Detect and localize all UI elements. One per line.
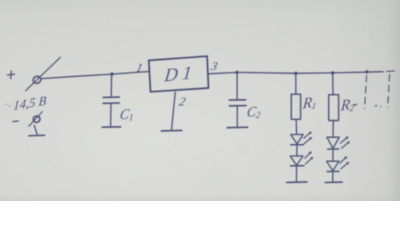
wire R1 to LED1 xyxy=(295,119,297,134)
LED VD3 xyxy=(327,136,350,149)
wire D1 pin2 down xyxy=(172,92,176,129)
ground under negative terminal xyxy=(29,134,45,137)
capacitor C1 xyxy=(103,74,119,126)
terminal X1 negative xyxy=(29,112,43,135)
ellipsis continuation dots xyxy=(354,105,382,107)
ground branch 2 xyxy=(325,181,342,183)
node D junction xyxy=(331,71,334,74)
wire dashed branch stub 2 xyxy=(388,75,390,108)
wire node D to edge xyxy=(333,72,383,73)
wire D1 pin3 to node B xyxy=(209,72,238,73)
wire dashed continuation right xyxy=(387,70,395,73)
minus sign xyxy=(13,120,18,123)
IC D1 xyxy=(149,56,209,92)
wire input to node A xyxy=(42,74,113,79)
wire LED2 to ground xyxy=(295,166,297,181)
ground branch 1 xyxy=(287,181,307,184)
capacitor C2 xyxy=(229,72,246,126)
resistor R1 xyxy=(291,94,300,119)
wire node C down to R1 xyxy=(295,73,297,94)
wire dashed branch stub 1 xyxy=(365,76,367,109)
wire LED3 to LED4 xyxy=(332,150,334,162)
node A junction xyxy=(110,72,113,75)
plus sign xyxy=(8,71,15,79)
paper specks xyxy=(6,104,11,106)
ground under C2 xyxy=(227,126,247,129)
ground under pin 2 xyxy=(161,129,182,132)
wire R2 to LED3 xyxy=(332,121,334,138)
wire node B to node C xyxy=(237,71,296,74)
LED VD4 xyxy=(327,156,350,171)
svg-text:D 1: D 1 xyxy=(162,63,192,87)
wire node A to D1 pin1 xyxy=(112,72,149,75)
LED VD1 xyxy=(291,131,313,144)
node B junction xyxy=(235,71,238,74)
wire node D down to R2 xyxy=(332,73,334,95)
wire LED1 to LED2 xyxy=(296,145,298,156)
LED VD2 xyxy=(290,151,313,166)
ground under C1 xyxy=(102,126,120,128)
node E junction xyxy=(365,70,368,73)
terminal X1 positive xyxy=(26,57,61,91)
node C junction xyxy=(294,72,297,75)
wire node C to node D xyxy=(296,72,333,74)
resistor R2 xyxy=(329,95,339,121)
wire LED4 to ground xyxy=(332,172,334,182)
